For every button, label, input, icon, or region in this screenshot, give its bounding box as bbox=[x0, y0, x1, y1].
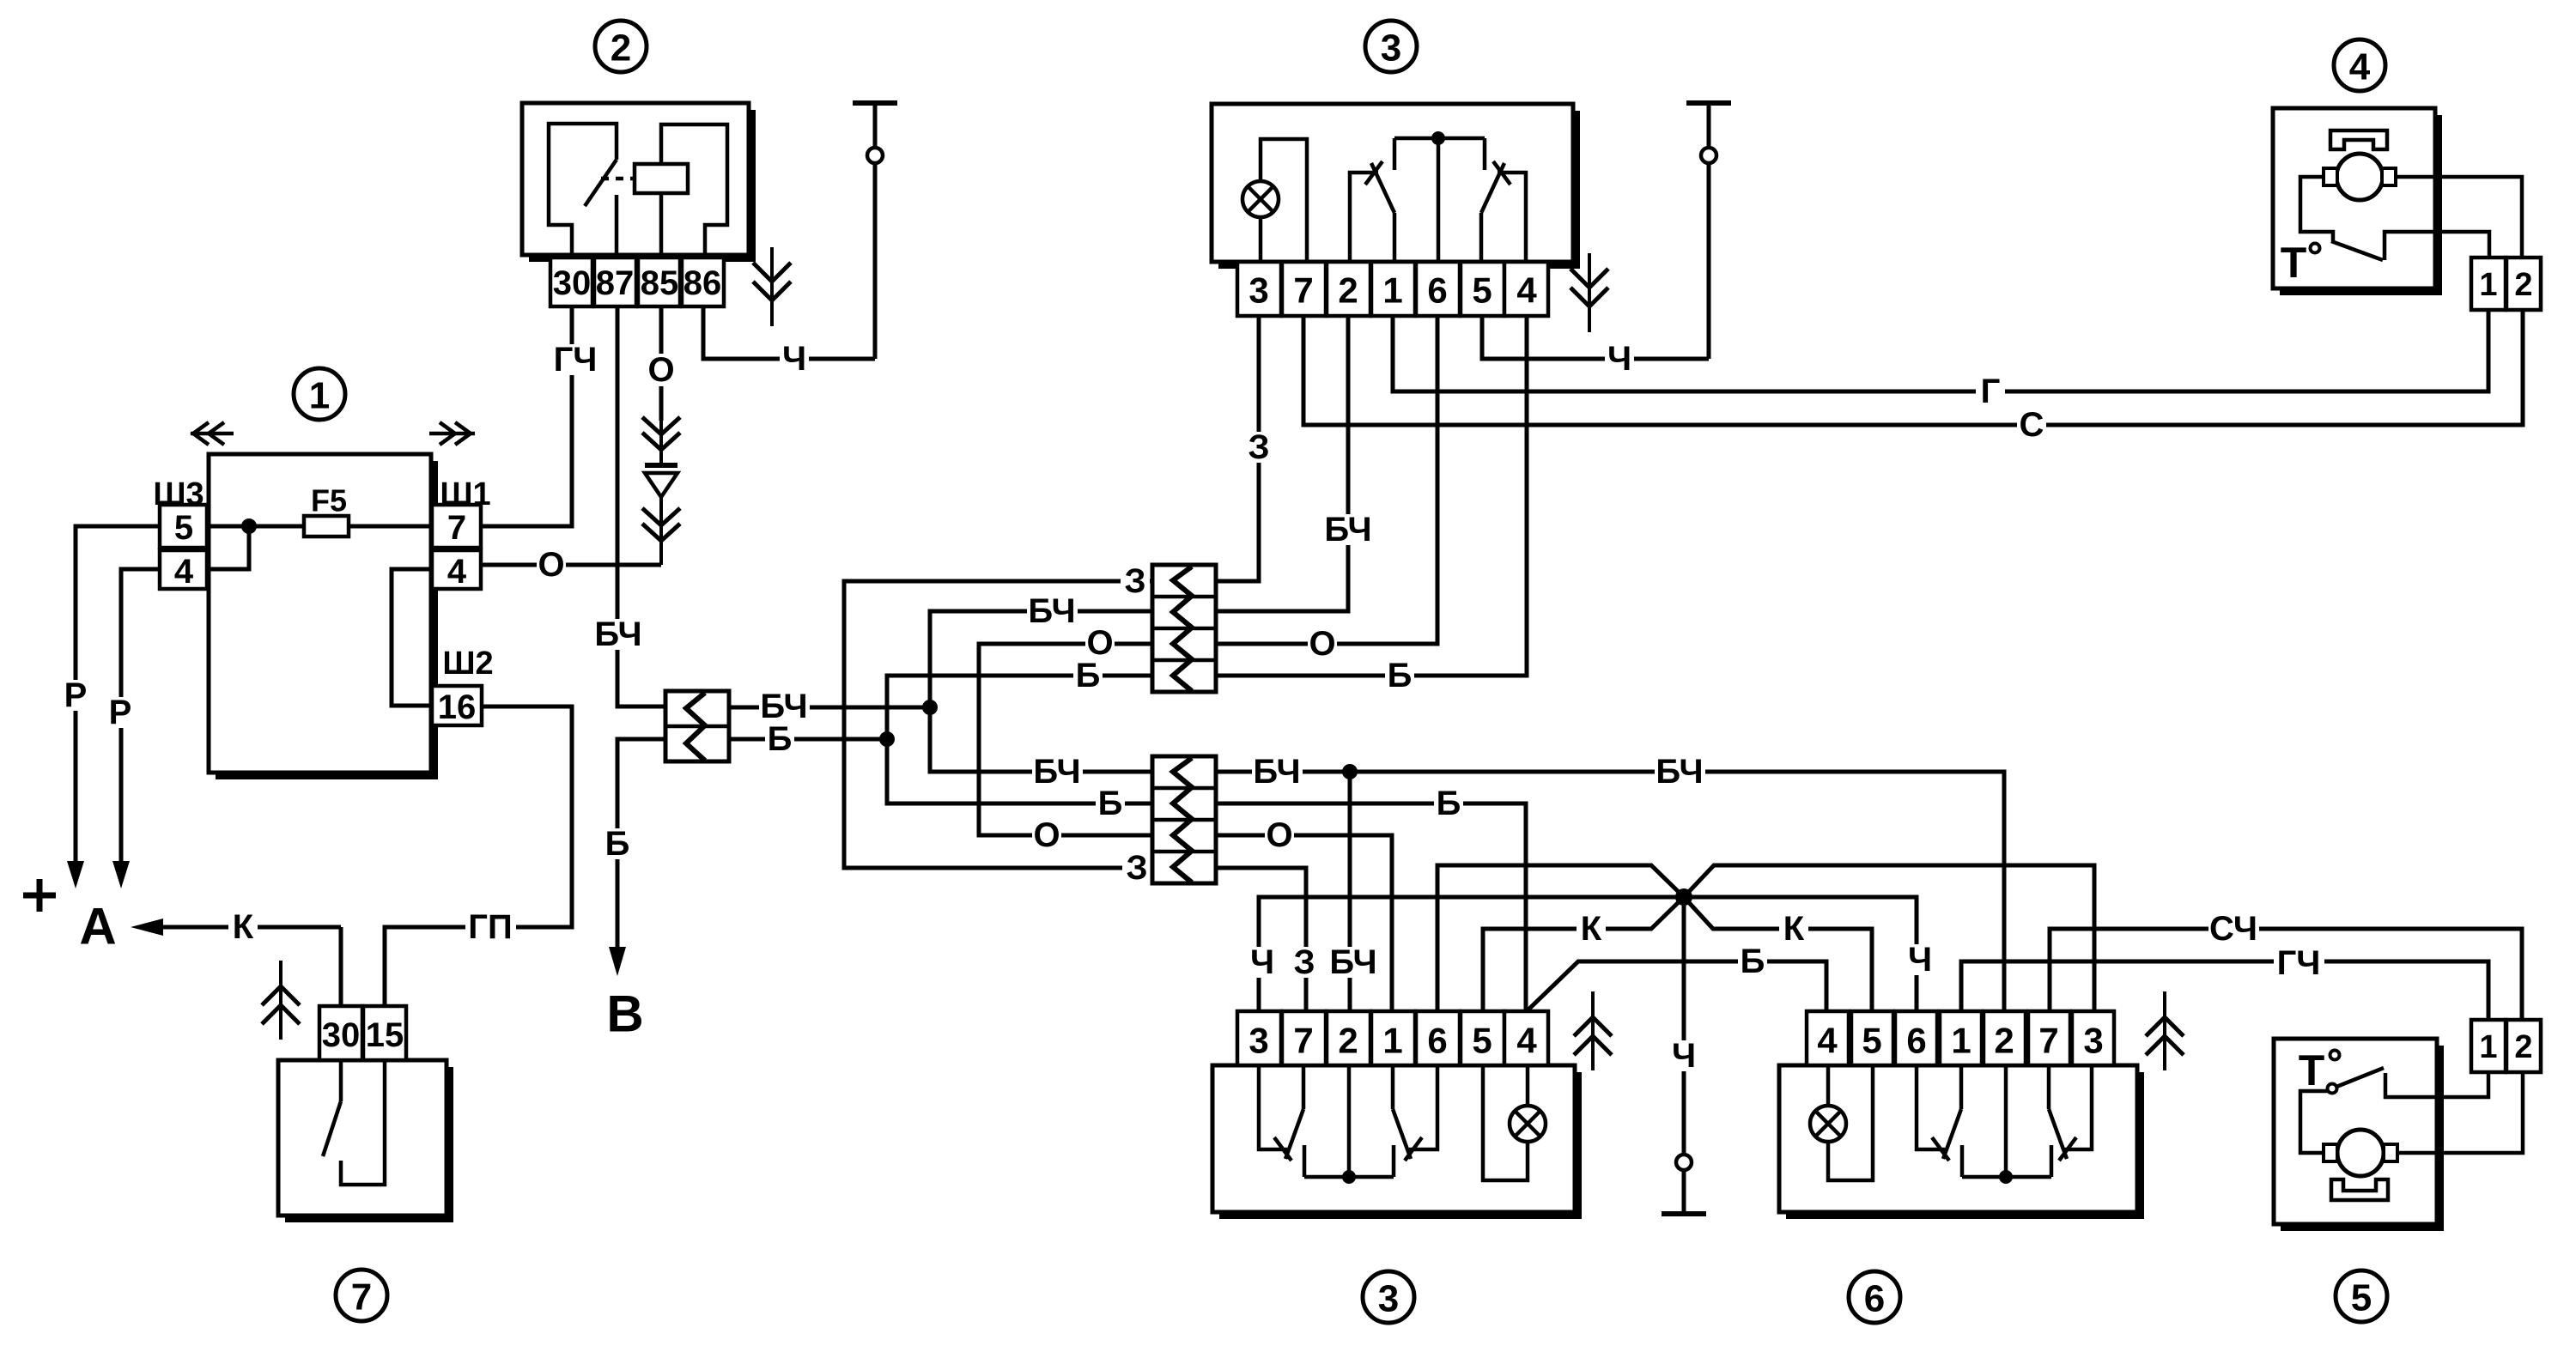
svg-text:6: 6 bbox=[1864, 1278, 1885, 1320]
unit 5 thermal pivot bbox=[2328, 1084, 2337, 1094]
svg-text:4: 4 bbox=[174, 553, 194, 591]
svg-text:7: 7 bbox=[1293, 1021, 1313, 1061]
bottom right blade (pin 1) bbox=[1391, 1065, 1395, 1109]
Ш3 pin 5 bbox=[160, 505, 207, 548]
wire Р from Ш3-4 to node A bbox=[121, 569, 160, 861]
svg-text:З: З bbox=[1293, 943, 1315, 981]
bottom unit pin 3 bbox=[1237, 1011, 1281, 1065]
svg-text:87: 87 bbox=[596, 264, 635, 302]
unit 6 left switch fixed (pin 6) bbox=[1917, 1065, 1945, 1149]
relay 2 pin 30 bbox=[550, 258, 592, 306]
bottom left tick bbox=[1274, 1137, 1291, 1161]
wire БЧ splice X3 long line bbox=[1216, 772, 2004, 1011]
svg-text:К: К bbox=[1783, 910, 1805, 948]
svg-text:6: 6 bbox=[1427, 1021, 1447, 1061]
ignition switch 7 body bbox=[447, 1067, 453, 1222]
unit 4 thermal switch wire bbox=[2300, 177, 2333, 241]
wire С pin7 to motor 4 pin2 bbox=[1303, 310, 2523, 425]
ground bar bbox=[1662, 1211, 1706, 1216]
unit 6 bar dot bbox=[1999, 1170, 2013, 1184]
unit 4 motor bbox=[2336, 154, 2383, 200]
wire БЧ label bbox=[593, 619, 644, 650]
svg-text:2: 2 bbox=[611, 27, 631, 70]
plus sign bbox=[23, 893, 56, 899]
wire БЧ relay 87 down to splice bbox=[617, 306, 665, 706]
svg-text:О: О bbox=[1309, 625, 1335, 663]
wire О label bbox=[1308, 628, 1337, 659]
unit 6 pin 7 bbox=[2028, 1011, 2070, 1065]
wire ГЧ label bbox=[550, 344, 601, 375]
svg-text:85: 85 bbox=[641, 264, 679, 302]
svg-text:БЧ: БЧ bbox=[1028, 592, 1075, 630]
ground arrow at ignition bbox=[279, 961, 283, 1040]
splice X3 (4 cells) bbox=[1152, 756, 1216, 883]
wire БЧ splice out bbox=[729, 706, 930, 710]
relay 2 body bbox=[749, 110, 756, 262]
svg-text:Ч: Ч bbox=[1908, 941, 1932, 979]
svg-text:О: О bbox=[1033, 816, 1060, 854]
svg-text:В: В bbox=[606, 985, 643, 1043]
switch unit 3 top label bbox=[1365, 21, 1417, 72]
left switch fixed contact (pin 2) bbox=[1350, 173, 1378, 262]
wire ГЧ unit6 pin1 to motor 5 pin1 bbox=[1961, 961, 2488, 1020]
svg-text:Р: Р bbox=[109, 694, 132, 731]
wire З splice X3 to bottom unit pin7 bbox=[1216, 868, 1306, 1011]
svg-text:6: 6 bbox=[1906, 1021, 1926, 1061]
svg-text:86: 86 bbox=[683, 264, 722, 302]
svg-text:1: 1 bbox=[1382, 270, 1402, 311]
mounting block 1 body bbox=[431, 461, 438, 779]
wire ГП ignition 15 to Ш2-16 bbox=[385, 706, 572, 1006]
svg-text:5: 5 bbox=[174, 509, 193, 547]
unit 5 motor wire to pin 2 bbox=[2397, 1073, 2523, 1153]
svg-text:1: 1 bbox=[2479, 267, 2497, 303]
switch unit 3 bottom label bbox=[1363, 1271, 1414, 1323]
wire БЧ label 3 on drop bbox=[1328, 947, 1379, 978]
unit 5 switch to pin 1 bbox=[2385, 1072, 2488, 1097]
wire БЧ pin2 to splice X2 bbox=[1216, 316, 1348, 611]
relay 2 coil bbox=[635, 164, 688, 193]
unit 4 brush bracket bbox=[2330, 130, 2387, 149]
svg-text:4: 4 bbox=[1516, 270, 1537, 311]
top unit pin 7 bbox=[1282, 262, 1326, 316]
right switch tick bbox=[1493, 161, 1510, 185]
svg-text:3: 3 bbox=[1378, 1278, 1399, 1320]
svg-text:А: А bbox=[79, 898, 116, 955]
svg-text:БЧ: БЧ bbox=[1324, 511, 1371, 549]
left switch tick bbox=[1365, 161, 1382, 185]
wire З label top bbox=[1121, 566, 1150, 597]
relay 2 coil lead to pin 85 bbox=[659, 193, 664, 258]
unit 6 left tick bbox=[1932, 1137, 1949, 1161]
bar junction dot bbox=[1431, 131, 1445, 145]
wire Р label bbox=[61, 680, 90, 711]
motor unit 4 label bbox=[2334, 39, 2385, 91]
wire Г pin1 to motor 4 pin1 bbox=[1393, 310, 2488, 391]
wire К bottom unit pin5 diagonal bbox=[1483, 897, 1684, 1011]
svg-text:5: 5 bbox=[1472, 270, 1492, 311]
svg-text:30: 30 bbox=[553, 264, 592, 302]
svg-text:7: 7 bbox=[447, 509, 466, 547]
relay 2 pin 85 bbox=[638, 258, 680, 306]
svg-text:Б: Б bbox=[1741, 943, 1765, 980]
svg-text:4: 4 bbox=[1817, 1021, 1838, 1061]
bottom right switch fixed (pin 6) bbox=[1409, 1065, 1437, 1149]
unit 4 switch to pin 1 bbox=[2385, 232, 2489, 260]
svg-text:З: З bbox=[1248, 428, 1269, 466]
svg-text:4: 4 bbox=[447, 553, 467, 591]
splice X2 (4 cells) bbox=[1152, 565, 1216, 692]
wire З label bbox=[1244, 432, 1273, 463]
wire Ч bottom unit pin3 to ground dot bbox=[1259, 897, 1917, 1011]
ground arrow at top unit bbox=[1588, 253, 1591, 332]
svg-text:К: К bbox=[233, 908, 254, 946]
wire О label bbox=[1265, 820, 1294, 851]
svg-text:2: 2 bbox=[2514, 1029, 2532, 1065]
ignition pin 15 bbox=[363, 1006, 406, 1060]
svg-text:К: К bbox=[1581, 910, 1602, 948]
svg-text:4: 4 bbox=[2349, 46, 2371, 88]
wire Ч label right bbox=[1905, 944, 1935, 975]
wire Б splice X3 to bottom unit pin4 bbox=[1216, 803, 1526, 1011]
bottom unit pin 7 bbox=[1282, 1011, 1326, 1065]
splice X1 (2 cells) bbox=[665, 691, 729, 761]
connector pass chevrons upper bbox=[659, 421, 663, 464]
arrowhead В bbox=[609, 947, 626, 976]
svg-text:Ш2: Ш2 bbox=[442, 646, 493, 682]
arrowhead Р1 bbox=[67, 861, 84, 888]
arrow left above block 1 bbox=[191, 432, 234, 436]
wire Ч motor-switch 6 pin3 diagonal bbox=[1684, 865, 2094, 1011]
ignition switch contact 30 bbox=[339, 1060, 343, 1101]
svg-text:Т: Т bbox=[2299, 1046, 2325, 1094]
switch unit 3 top body bbox=[1573, 111, 1580, 269]
motor unit 4 body bbox=[2435, 115, 2442, 295]
wire О label relay 85 bbox=[647, 355, 676, 385]
wire Р label 2 bbox=[106, 697, 135, 728]
wire Ч relay 86 to ground post bbox=[703, 306, 875, 359]
connector pass chevrons lower bbox=[659, 494, 663, 565]
wire Б label bbox=[1738, 946, 1767, 977]
unit 4 thermal blade bbox=[2331, 241, 2383, 260]
wire БЧ branch down to splice X3 bbox=[930, 707, 1152, 772]
wire З label bottom bbox=[1122, 852, 1151, 883]
svg-text:1: 1 bbox=[309, 375, 330, 417]
wire Б label bbox=[1385, 660, 1414, 691]
wire О pin6 to splice X2 bbox=[1216, 316, 1437, 644]
svg-text:Б: Б bbox=[1076, 657, 1101, 694]
wire junction to Ш3-4 bbox=[207, 526, 249, 569]
top unit pin 3 bbox=[1237, 262, 1281, 316]
wire О continues bbox=[659, 386, 664, 421]
bottom bar dot bbox=[1342, 1170, 1356, 1184]
svg-text:ГП: ГП bbox=[468, 908, 512, 946]
svg-text:О: О bbox=[647, 351, 674, 389]
bottom left switch fixed (pin 3) bbox=[1259, 1065, 1287, 1149]
wire СЧ unit6 pin7 to motor 5 pin2 bbox=[2050, 929, 2522, 1020]
svg-text:Т: Т bbox=[2281, 239, 2307, 287]
diode VD bbox=[645, 463, 677, 468]
wire З between splices bbox=[844, 581, 1152, 868]
unit 5 thermal blade bbox=[2336, 1068, 2384, 1087]
bottom unit pin 2 bbox=[1327, 1011, 1370, 1065]
unit 6 common bar bbox=[1962, 1175, 2051, 1179]
svg-text:ГЧ: ГЧ bbox=[2277, 944, 2321, 982]
ignition switch blade bbox=[323, 1101, 341, 1156]
wire Б label bbox=[1434, 788, 1463, 819]
bottom unit common bar bbox=[1304, 1175, 1394, 1179]
svg-text:Г: Г bbox=[1981, 373, 2001, 410]
bottom right tick bbox=[1405, 1137, 1422, 1161]
mounting block 1 label bbox=[294, 368, 345, 420]
wire БЧ to bottom unit pin2 bbox=[1348, 772, 1352, 1011]
wire Б label out bbox=[765, 724, 794, 755]
svg-text:Ч: Ч bbox=[1672, 1037, 1696, 1075]
svg-text:5: 5 bbox=[1472, 1021, 1492, 1061]
Ш1 pin 4 bbox=[432, 550, 481, 589]
svg-text:F5: F5 bbox=[311, 483, 347, 518]
wire К label right bbox=[1779, 913, 1808, 944]
junction БЧ low bbox=[1342, 764, 1358, 779]
wire Ч label ground bbox=[1669, 1040, 1698, 1071]
arrow right above block 1 bbox=[429, 432, 475, 436]
Ш1 pin 7 bbox=[432, 505, 481, 548]
unit 4 pin 2 bbox=[2506, 258, 2541, 310]
svg-text:2: 2 bbox=[2514, 267, 2532, 303]
svg-text:Р: Р bbox=[64, 676, 88, 714]
wire СЧ label bbox=[2208, 913, 2259, 944]
motor unit 5 label bbox=[2336, 1270, 2387, 1322]
bottom unit pin 1 bbox=[1371, 1011, 1415, 1065]
bottom unit pin 4 bbox=[1504, 1011, 1548, 1065]
svg-text:О: О bbox=[1086, 624, 1113, 662]
svg-text:7: 7 bbox=[1293, 270, 1313, 311]
wire Ч to ground bbox=[1682, 897, 1686, 1155]
ground arrow at unit 6 bbox=[2163, 991, 2166, 1070]
wire Ч pin5 to ground post bbox=[1482, 316, 1709, 359]
wire З label bbox=[1290, 947, 1319, 978]
fuse F5 bbox=[304, 516, 349, 537]
svg-text:Б: Б bbox=[768, 720, 793, 758]
svg-text:Б: Б bbox=[1098, 785, 1123, 822]
svg-text:2: 2 bbox=[1338, 1021, 1358, 1061]
motor unit 5 body bbox=[2437, 1046, 2444, 1231]
wire БЧ branch up to splice X2 bbox=[930, 611, 1152, 707]
junction on fuse wire bbox=[241, 518, 257, 534]
wire О label bottom bbox=[1032, 820, 1061, 851]
bottom unit pin 5 bbox=[1461, 1011, 1504, 1065]
relay 2 pin 86 bbox=[682, 258, 724, 306]
unit 6 right tick bbox=[2059, 1137, 2076, 1161]
bottom unit lamp bbox=[1483, 1065, 1528, 1180]
wire Ч bottom unit pin6 diagonal bbox=[1437, 865, 1684, 1011]
top unit pin 2 bbox=[1327, 262, 1370, 316]
svg-text:С: С bbox=[2020, 406, 2044, 444]
svg-text:2: 2 bbox=[1338, 270, 1358, 311]
lamp top unit bbox=[1259, 217, 1263, 262]
wire О label top bbox=[1085, 628, 1115, 658]
unit 6 lamp bbox=[1828, 1065, 1873, 1180]
svg-text:БЧ: БЧ bbox=[594, 615, 641, 653]
wire С label bbox=[2017, 409, 2046, 440]
unit 5 pin 1 bbox=[2471, 1020, 2506, 1072]
wire Б pin4 to splice X2 bbox=[1216, 316, 1527, 676]
unit 6 pin 5 bbox=[1851, 1011, 1893, 1065]
svg-text:15: 15 bbox=[366, 1016, 404, 1054]
ignition switch 7 label bbox=[336, 1270, 387, 1321]
junction БЧ bbox=[922, 700, 938, 715]
bottom left blade (pin 7) bbox=[1302, 1065, 1306, 1109]
unit 4 motor wire to pin 2 bbox=[2396, 177, 2522, 258]
wire БЧ label 1 bbox=[1252, 756, 1303, 787]
svg-text:3: 3 bbox=[1381, 27, 1401, 70]
unit 6 left blade (pin 1) bbox=[1959, 1065, 1964, 1109]
top unit pin 6 bbox=[1416, 262, 1460, 316]
svg-text:БЧ: БЧ bbox=[1656, 753, 1703, 791]
unit 6 pin 4 bbox=[1807, 1011, 1849, 1065]
svg-text:З: З bbox=[1126, 849, 1147, 887]
svg-text:Ч: Ч bbox=[782, 340, 806, 378]
svg-text:Б: Б bbox=[1437, 785, 1461, 822]
wire Р from Ш3-5 to node A bbox=[76, 526, 160, 861]
wire Б splice to arrow В bbox=[617, 739, 665, 947]
block 1 internal wire Ш1-4 to Ш2-16 bbox=[392, 569, 431, 706]
unit 6 pin 1 bbox=[1940, 1011, 1982, 1065]
relay 2 pin 87 bbox=[594, 258, 636, 306]
svg-text:З: З bbox=[1124, 562, 1145, 600]
wire ГЧ relay 30 to Ш1-7 bbox=[482, 306, 572, 526]
wire Г label bbox=[1976, 376, 2005, 407]
unit 4 pin 1 bbox=[2471, 258, 2506, 310]
wire ГП label bbox=[465, 912, 516, 943]
top unit pin 4 bbox=[1504, 262, 1548, 316]
wire О relay 85 down bbox=[659, 306, 664, 354]
svg-text:Ч: Ч bbox=[1250, 943, 1274, 981]
wire Ч label bbox=[780, 343, 809, 374]
top unit pin 5 bbox=[1461, 262, 1504, 316]
relay 2 blade-coil dashed link bbox=[601, 177, 633, 181]
svg-text:БЧ: БЧ bbox=[1253, 753, 1300, 791]
wire Б bottom unit pin4 to switch 6 pin4 bbox=[1527, 961, 1826, 1011]
wire ГЧ label bbox=[2274, 948, 2324, 979]
relay 2 pin87 terminal bbox=[615, 195, 619, 258]
relay 2 coil frame to pin 86 bbox=[661, 124, 727, 258]
svg-text:7: 7 bbox=[2038, 1021, 2058, 1061]
unit 5 brush bracket bbox=[2331, 1179, 2388, 1200]
svg-text:2: 2 bbox=[1994, 1021, 2014, 1061]
svg-text:5: 5 bbox=[2351, 1277, 2372, 1319]
switch unit 6 label bbox=[1849, 1271, 1900, 1323]
bar to pin 6 bbox=[1437, 138, 1441, 262]
svg-text:1: 1 bbox=[1382, 1021, 1402, 1061]
wire О label on Ш1-4 wire bbox=[537, 549, 566, 580]
arrowhead Р2 bbox=[112, 861, 130, 888]
Ш2 pin 16 bbox=[432, 686, 482, 725]
svg-text:Б: Б bbox=[1388, 657, 1413, 694]
svg-text:3: 3 bbox=[1249, 270, 1268, 311]
wire БЧ label up bbox=[1027, 596, 1078, 627]
svg-text:ГЧ: ГЧ bbox=[554, 341, 598, 379]
wire БЧ label 2 bbox=[1655, 756, 1705, 787]
common bar top unit bbox=[1394, 136, 1485, 141]
ground connector circle bbox=[1676, 1155, 1692, 1170]
unit 5 pin 2 bbox=[2506, 1020, 2541, 1072]
wire О splice X3 to bottom unit pin1 bbox=[1216, 835, 1392, 1011]
wire Б branch down to splice X3 bbox=[887, 739, 1152, 803]
wire К label bbox=[228, 912, 258, 943]
svg-text:3: 3 bbox=[2083, 1021, 2103, 1061]
svg-text:5: 5 bbox=[1862, 1021, 1881, 1061]
unit 5 thermal switch wire bbox=[2300, 1091, 2329, 1153]
wire Б label up bbox=[1073, 660, 1103, 691]
wire О between splices bbox=[979, 644, 1152, 835]
unit 6 pin 6 bbox=[1895, 1011, 1937, 1065]
unit 5 motor bbox=[2337, 1130, 2384, 1176]
svg-text:16: 16 bbox=[438, 688, 477, 726]
wire Ч label left bbox=[1248, 947, 1277, 978]
ignition switch contact 15 bbox=[341, 1060, 385, 1185]
svg-text:7: 7 bbox=[351, 1276, 372, 1319]
right switch blade (pin 5) bbox=[1481, 163, 1504, 213]
junction Б bbox=[879, 731, 895, 747]
bottom unit pin 6 bbox=[1416, 1011, 1460, 1065]
wire Ч label bbox=[1605, 343, 1634, 374]
svg-text:6: 6 bbox=[1427, 270, 1447, 311]
wire Б label down bbox=[1096, 788, 1125, 819]
svg-text:БЧ: БЧ bbox=[1329, 943, 1376, 981]
wire Б splice out bbox=[729, 737, 887, 742]
svg-text:Ч: Ч bbox=[1607, 340, 1631, 378]
left switch blade (pin 1) bbox=[1371, 163, 1394, 213]
relay 2 switch blade bbox=[585, 160, 617, 206]
ground junction dot bbox=[1675, 888, 1692, 906]
svg-text:1: 1 bbox=[2479, 1029, 2497, 1065]
fuse wire Ш3-5 to Ш1-7 bbox=[207, 524, 432, 529]
relay 2 label bbox=[595, 21, 647, 72]
wire К label left bbox=[1577, 913, 1606, 944]
wire БЧ label down bbox=[1032, 756, 1083, 787]
switch unit 3 bottom body bbox=[1575, 1072, 1582, 1219]
wire Б label bbox=[603, 828, 632, 859]
ground arrow at relay bbox=[770, 247, 774, 326]
wire З pin3 to splice X2 bbox=[1216, 316, 1259, 581]
svg-text:4: 4 bbox=[1516, 1021, 1537, 1061]
unit 6 right switch fixed (pin 3) bbox=[2063, 1065, 2092, 1149]
wire Б branch up to splice X2 bbox=[887, 676, 1152, 739]
right switch fixed contact (pin 4) bbox=[1498, 173, 1526, 262]
svg-text:О: О bbox=[538, 546, 564, 584]
svg-text:БЧ: БЧ bbox=[1033, 753, 1080, 791]
wire БЧ label out bbox=[759, 691, 810, 722]
ground post near top unit bbox=[1707, 163, 1711, 359]
relay 2 inner contact frame bbox=[549, 124, 617, 258]
ground post near relay bbox=[873, 163, 878, 359]
wire К ignition 30 to node A bbox=[163, 925, 341, 930]
unit 6 right blade (pin 7) bbox=[2047, 1065, 2051, 1109]
wire БЧ label bbox=[1323, 514, 1374, 545]
Ш3 pin 4 bbox=[160, 550, 207, 589]
top unit pin 1 bbox=[1371, 262, 1415, 316]
ground arrow at bottom unit bbox=[1591, 991, 1595, 1070]
wire О Ш1-4 to diode chain bbox=[482, 563, 661, 567]
unit 6 pin 3 bbox=[2072, 1011, 2114, 1065]
ignition pin 30 bbox=[319, 1006, 362, 1060]
svg-text:СЧ: СЧ bbox=[2209, 910, 2257, 948]
svg-text:О: О bbox=[1266, 816, 1292, 854]
switch unit 6 body bbox=[2137, 1072, 2144, 1219]
unit 6 pin 2 bbox=[1984, 1011, 2026, 1065]
svg-text:3: 3 bbox=[1249, 1021, 1268, 1061]
